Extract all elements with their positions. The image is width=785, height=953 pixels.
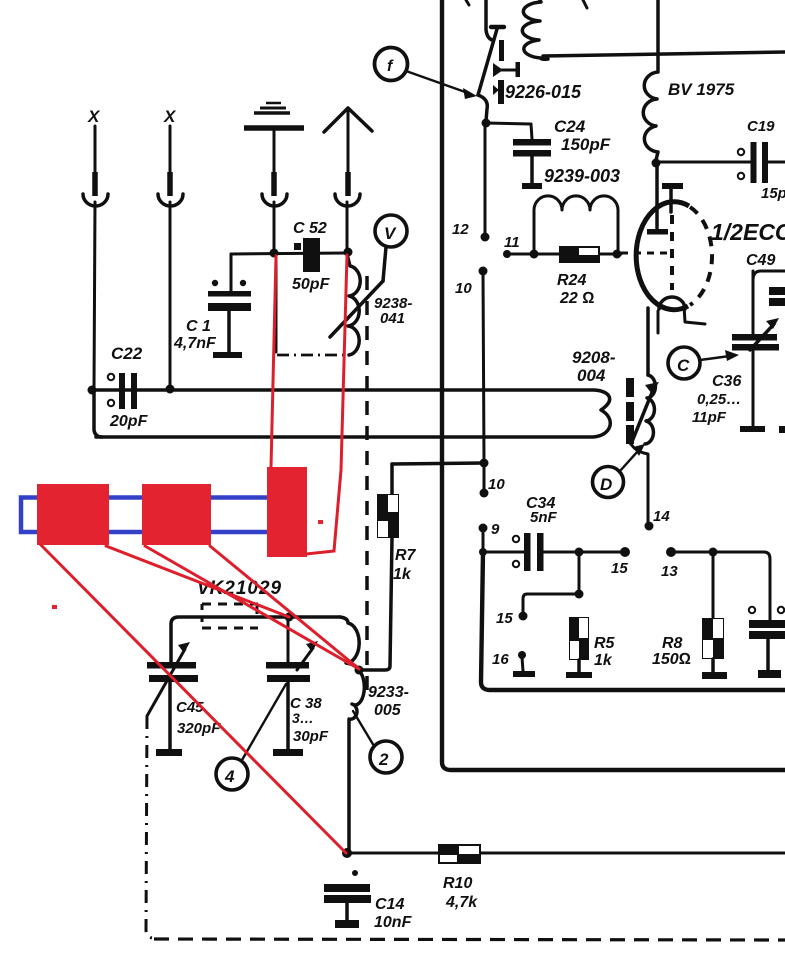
switch 9226-015: [478, 0, 520, 121]
shield dashed border bottom: [154, 939, 785, 940]
junction switch bottom: [482, 119, 491, 128]
wire to node 15 left: [523, 594, 579, 613]
svg-text:10: 10: [455, 280, 472, 297]
svg-text:15: 15: [496, 610, 513, 627]
svg-text:11pF: 11pF: [692, 409, 727, 426]
red leader line right: [306, 255, 347, 554]
trimmer dashed box: [202, 604, 258, 628]
svg-text:50pF: 50pF: [292, 276, 331, 293]
blue highlight rectangle: [21, 498, 271, 533]
resistor R10 4,7k: [438, 844, 481, 911]
node 4 circle with leader: [216, 684, 286, 790]
junction node9 rail: [479, 548, 487, 556]
resistor R7 1k: [377, 464, 417, 583]
svg-text:320pF: 320pF: [177, 720, 221, 737]
wire top tick: [583, 0, 587, 8]
svg-text:10: 10: [488, 476, 505, 493]
junction anode node: [652, 159, 661, 168]
svg-text:9208-: 9208-: [572, 348, 616, 367]
red callout line C: [145, 546, 359, 669]
node 14: [645, 522, 654, 531]
svg-text:C36: C36: [712, 373, 741, 390]
svg-text:150Ω: 150Ω: [652, 651, 691, 668]
wire main vertical bus with bottom bold rail: [442, 0, 785, 770]
capacitor C49: [769, 287, 785, 306]
svg-text:20pF: 20pF: [109, 413, 149, 430]
dashed screen line: [365, 276, 369, 693]
svg-text:D: D: [600, 475, 612, 494]
svg-text:005: 005: [374, 702, 402, 719]
capacitor C38 variable 3-30pF: [266, 617, 329, 756]
svg-text:X: X: [163, 107, 177, 126]
antenna symbol: [324, 108, 372, 250]
tube cathode: [659, 297, 685, 309]
svg-text:4,7k: 4,7k: [445, 894, 478, 911]
capacitor decoupling right: [749, 607, 785, 678]
node junction antenna: [344, 248, 353, 257]
wire tube left lead down: [646, 308, 650, 375]
node 12: [481, 233, 490, 242]
wire R5 branch: [578, 552, 581, 594]
wire C34 to node 15: [543, 551, 625, 554]
node 16: [518, 651, 526, 659]
wire top horizontal rail: [543, 52, 785, 56]
node f circle with leader arrow: [375, 48, 478, 100]
inductor BV1975: [643, 0, 734, 160]
svg-text:BV 1975: BV 1975: [668, 80, 735, 99]
red callout line A: [40, 544, 346, 853]
resistor R8 150ohm: [652, 552, 727, 679]
junction X2 node: [166, 385, 175, 394]
wire contact 10 down: [483, 271, 484, 461]
svg-text:R7: R7: [395, 547, 417, 564]
junction R5 top: [575, 548, 584, 557]
wire contact segment: [483, 463, 486, 490]
wire to C19: [656, 161, 750, 164]
svg-text:041: 041: [380, 310, 405, 327]
wire AVC rail: [347, 852, 438, 855]
tube envelope 1/2 ECC85 solid half: [636, 202, 689, 310]
shield box C52: [276, 255, 350, 355]
svg-text:22 Ω: 22 Ω: [559, 290, 595, 307]
junction R8 top: [709, 548, 718, 557]
red highlight box 1: [37, 484, 109, 545]
red speck left: [52, 605, 57, 609]
node 15 right: [620, 547, 630, 557]
earth antenna symbol: [244, 103, 304, 250]
svg-text:5nF: 5nF: [530, 509, 558, 526]
red highlight box 2: [142, 484, 211, 545]
svg-text:4,7nF: 4,7nF: [173, 335, 217, 352]
node 11 terminal: [503, 250, 511, 258]
capacitor C34 5nF: [513, 495, 558, 571]
svg-text:1k: 1k: [594, 652, 613, 669]
tube divider dashed: [670, 215, 674, 290]
wire top stub: [466, 0, 469, 5]
svg-text:15: 15: [611, 560, 628, 577]
svg-text:C 52: C 52: [293, 220, 327, 237]
svg-text:11: 11: [504, 234, 520, 251]
junction C14: [342, 848, 352, 858]
inductor parallel to R24: [534, 196, 618, 252]
junction R5 mid: [575, 590, 584, 599]
wire heater stub: [657, 311, 660, 333]
node V circle with leader: [375, 215, 407, 281]
ground stub right edge: [779, 426, 785, 433]
capacitor C45 variable 320pF: [147, 642, 221, 756]
svg-text:C22: C22: [111, 344, 143, 363]
node 10 upper: [479, 267, 488, 276]
svg-text:004: 004: [577, 366, 606, 385]
svg-text:3…: 3…: [292, 710, 314, 726]
svg-text:30pF: 30pF: [293, 728, 329, 745]
svg-text:C49: C49: [746, 252, 775, 269]
wire C49: [753, 271, 785, 280]
wire R24 right: [600, 253, 621, 256]
tube grid dashed: [621, 252, 674, 255]
inductor 9238-041 variable: [330, 254, 412, 355]
junction R24 left: [530, 250, 539, 259]
capacitor C1 4,7nF: [173, 254, 251, 358]
wire cathode lead: [684, 306, 705, 324]
svg-text:R24: R24: [557, 272, 586, 289]
wire inner box left and bottom rail: [481, 552, 785, 690]
red highlight box 3: [267, 467, 307, 557]
node 2 circle with leader: [353, 711, 402, 773]
junction loop left: [88, 386, 97, 395]
svg-text:R5: R5: [594, 635, 616, 652]
svg-text:C 1: C 1: [186, 318, 211, 335]
capacitor C19 15pF: [738, 118, 785, 202]
connector X2: [158, 107, 183, 389]
svg-text:C: C: [677, 356, 690, 375]
junction C38 top: [285, 613, 294, 622]
svg-text:9233-: 9233-: [368, 684, 409, 701]
svg-text:9: 9: [491, 521, 500, 538]
red leader line left: [271, 256, 276, 467]
wire node 11 to R24: [507, 253, 559, 256]
wire contact 12: [484, 125, 487, 234]
tube envelope dashed half: [690, 207, 712, 305]
svg-text:V: V: [384, 224, 397, 243]
svg-text:R10: R10: [443, 875, 472, 892]
wire node13 rail: [671, 552, 770, 620]
wire coupling loop 9208-004: [92, 348, 616, 437]
svg-text:1/2ECC8: 1/2ECC8: [711, 219, 785, 245]
junction coil tap: [355, 666, 364, 675]
red callout line B: [106, 546, 289, 617]
ground node 16: [513, 657, 535, 677]
wire R7 top rail: [392, 463, 484, 464]
node C circle with arrow: [668, 347, 739, 379]
tube anode plate: [647, 229, 668, 235]
capacitor C52 50pF: [292, 220, 331, 293]
svg-text:14: 14: [653, 508, 670, 525]
svg-text:10nF: 10nF: [374, 914, 413, 931]
junction R7 top: [480, 459, 489, 468]
svg-text:12: 12: [452, 221, 469, 238]
wire node 9 down: [482, 531, 485, 552]
wire AVC rail right: [481, 852, 785, 855]
node D circle with arrow: [593, 444, 646, 498]
svg-text:16: 16: [492, 651, 509, 668]
svg-text:R8: R8: [662, 635, 683, 652]
junction grid node: [613, 250, 622, 259]
resistor R24 22ohm: [557, 246, 600, 307]
node junction ground antenna: [270, 249, 279, 258]
svg-text:9239-003: 9239-003: [544, 166, 620, 186]
label C36 value: [692, 391, 741, 426]
svg-text:2: 2: [378, 750, 389, 769]
inductor antenna coil top left: [522, 0, 548, 59]
wire antenna rail: [231, 253, 347, 254]
svg-text:X: X: [87, 107, 101, 126]
red callout line D: [210, 546, 358, 668]
capacitor C14 10nF: [324, 870, 413, 931]
capacitor C22 20pF: [108, 344, 149, 430]
svg-text:13: 13: [661, 563, 678, 580]
wire tank circuit top rail: [171, 617, 340, 664]
inductor secondary right: [645, 375, 655, 444]
core dashes: [626, 378, 634, 444]
svg-text:15p: 15p: [761, 185, 785, 202]
connector X1: [83, 107, 108, 390]
wire R7 bottom: [362, 538, 392, 670]
node 13: [666, 547, 676, 557]
tube anode lead: [655, 163, 659, 228]
shield dash-dot border left: [146, 716, 154, 938]
tube internal post: [662, 183, 683, 212]
node 10 lower: [480, 489, 489, 498]
node 15 left: [519, 612, 528, 621]
svg-text:9226-015: 9226-015: [505, 82, 582, 102]
svg-text:1k: 1k: [393, 566, 412, 583]
inductor 9233-005: [340, 617, 409, 853]
wire node9 to C34: [483, 551, 524, 554]
node 9: [479, 524, 488, 533]
svg-text:0,25…: 0,25…: [697, 391, 741, 408]
svg-text:C14: C14: [375, 896, 404, 913]
svg-text:4: 4: [224, 767, 235, 786]
switch wiper arrow: [631, 382, 659, 522]
svg-text:150pF: 150pF: [561, 135, 611, 154]
capacitor C24 150pF: [513, 117, 620, 189]
capacitor C36 variable: [712, 271, 779, 432]
resistor R5 1k: [566, 617, 616, 678]
svg-text:C19: C19: [747, 118, 775, 135]
svg-text:C24: C24: [554, 117, 586, 136]
wire to C24: [486, 123, 532, 139]
red speck right: [318, 520, 323, 524]
